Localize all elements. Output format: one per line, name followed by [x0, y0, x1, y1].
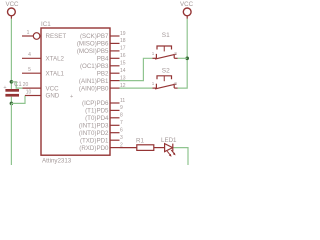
pin 10 GND	[25, 95, 41, 97]
svg-text:PB4: PB4	[97, 56, 109, 63]
pin 9 (T1)PD5	[110, 109, 120, 111]
svg-text:S1: S1	[162, 32, 170, 39]
svg-text:VCC: VCC	[5, 1, 19, 8]
pin 4 XTAL2	[22, 57, 41, 59]
svg-text:1: 1	[152, 51, 155, 56]
pin 3 (TXD)PD1	[110, 139, 120, 141]
svg-text:VCC: VCC	[46, 85, 60, 92]
wire GND rail to bottom edge	[10, 103, 12, 165]
LED1 emission arrow b	[171, 150, 174, 154]
svg-text:(INT1)PD3: (INT1)PD3	[79, 123, 109, 130]
svg-text:(INT0)PD2: (INT0)PD2	[79, 130, 109, 137]
pin 13 (AIN1)PB1	[110, 80, 120, 82]
svg-text:16: 16	[120, 53, 126, 59]
junction on GND net below C1	[10, 102, 14, 106]
svg-text:1: 1	[152, 81, 155, 86]
svg-text:19: 19	[120, 31, 126, 37]
wire R1 to LED1 anode	[154, 147, 165, 149]
svg-text:1: 1	[27, 30, 30, 36]
pin 19 (SCK)PB7	[110, 35, 120, 37]
pin 16 PB4	[110, 57, 120, 59]
switch S2	[152, 67, 178, 89]
svg-text:VCC: VCC	[180, 1, 194, 8]
wire jog from junction to IC pin 20	[11, 82, 22, 88]
svg-text:(SCK)PB7: (SCK)PB7	[80, 33, 109, 40]
svg-text:3: 3	[120, 135, 123, 141]
IC IC1 ATtiny2313	[22, 21, 126, 165]
pin 7 (INT1)PD3	[110, 124, 120, 126]
supply symbol VCC right	[180, 1, 194, 19]
wire VCC left vertical drop	[10, 19, 12, 89]
svg-text:(MOSI)PB5: (MOSI)PB5	[77, 48, 109, 55]
wire C1 bottom to GND junction	[10, 97, 12, 104]
svg-text:2: 2	[174, 81, 177, 86]
pin 18 (MISO)PB6	[110, 42, 120, 44]
wire IC pin 12 to S2 pin1	[120, 87, 153, 89]
pin 1 RESET	[22, 35, 33, 37]
svg-text:XTAL1: XTAL1	[46, 70, 65, 77]
svg-text:6: 6	[120, 128, 123, 134]
svg-text:7: 7	[120, 120, 123, 126]
junction on VCC net above C1	[10, 80, 14, 84]
svg-text:(AIN0)PB0: (AIN0)PB0	[79, 85, 109, 92]
svg-text:5: 5	[28, 67, 31, 73]
resistor R1	[136, 137, 154, 150]
pin 14 PB2	[110, 72, 120, 74]
svg-text:C1: C1	[14, 82, 22, 88]
svg-text:+: +	[70, 94, 73, 100]
svg-text:(RXD)PD0: (RXD)PD0	[79, 145, 109, 152]
pin 20 VCC	[23, 87, 42, 89]
LED1 emission arrow a	[167, 151, 170, 155]
svg-text:11: 11	[120, 98, 125, 104]
svg-text:(MISO)PB6: (MISO)PB6	[77, 41, 109, 48]
pin 8 (T0)PD4	[110, 117, 120, 119]
svg-text:(ICP)PD6: (ICP)PD6	[82, 100, 109, 107]
wire jog from GND junction to IC pin 10	[11, 96, 25, 104]
wire S1 pin2 to VCC rail	[178, 57, 188, 59]
capacitor C1	[3, 82, 22, 97]
svg-text:S2: S2	[162, 67, 170, 74]
svg-text:(T0)PD4: (T0)PD4	[85, 115, 109, 122]
pin 2 (RXD)PD0	[110, 147, 120, 149]
svg-text:9: 9	[120, 105, 123, 111]
svg-text:4: 4	[28, 52, 31, 58]
svg-text:(AIN1)PB1: (AIN1)PB1	[79, 78, 109, 85]
pin 11 (ICP)PD6	[110, 102, 120, 104]
svg-text:XTAL2: XTAL2	[46, 56, 65, 63]
svg-text:(T1)PD5: (T1)PD5	[85, 108, 109, 115]
pin 5 XTAL1	[22, 72, 41, 74]
svg-text:RESET: RESET	[46, 33, 67, 40]
pin 12 (AIN0)PB0	[110, 87, 120, 89]
svg-text:14: 14	[120, 68, 126, 74]
svg-text:2: 2	[174, 51, 177, 56]
svg-text:PB2: PB2	[97, 70, 109, 77]
junction VCC rail at S1 row	[185, 57, 189, 61]
svg-text:(OC1)PB3: (OC1)PB3	[80, 63, 109, 70]
svg-text:15: 15	[120, 61, 126, 67]
svg-text:Attiny2313: Attiny2313	[42, 158, 72, 165]
svg-text:LED1: LED1	[161, 137, 177, 144]
wire IC pin 2 to R1	[120, 147, 137, 149]
svg-text:8: 8	[120, 113, 123, 119]
switch S1	[152, 32, 178, 59]
svg-text:20: 20	[23, 82, 29, 88]
svg-text:10: 10	[26, 89, 32, 95]
pin 15 (OC1)PB3	[110, 65, 120, 67]
svg-text:(TXD)PD1: (TXD)PD1	[80, 137, 109, 144]
wire LED1 cathode to bottom edge	[174, 148, 189, 165]
svg-text:GND: GND	[46, 93, 60, 100]
svg-text:R1: R1	[136, 137, 144, 144]
svg-text:18: 18	[120, 38, 126, 44]
pin 6 (INT0)PD2	[110, 132, 120, 134]
LED LED1	[161, 137, 177, 157]
svg-text:IC1: IC1	[41, 21, 51, 28]
wire VCC right rail down to S2 row	[178, 19, 188, 88]
wire S1 pin1 to IC pin 13	[120, 58, 153, 80]
svg-text:17: 17	[120, 46, 126, 52]
supply symbol VCC left	[5, 1, 19, 19]
pin 17 (MOSI)PB5	[110, 50, 120, 52]
